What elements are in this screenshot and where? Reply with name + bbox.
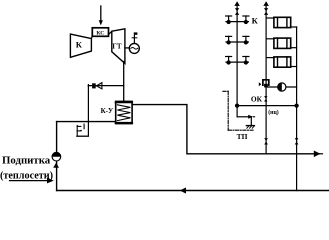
generator G: [129, 43, 139, 53]
radiator 1: [266, 17, 297, 27]
drain symbol: [246, 126, 254, 129]
supply water line from boiler to consumers: [132, 105, 319, 154]
return water line into boiler: [57, 121, 116, 123]
fuel supply arrow into combustion chamber: [99, 6, 103, 25]
taps riser valve: [235, 8, 239, 15]
hot water taps riser: [236, 3, 238, 106]
circulation pump: [278, 83, 286, 91]
temperature regulator valve: [259, 80, 269, 88]
heating supply riser: [265, 3, 267, 154]
svg-text:К-У: К-У: [101, 107, 114, 115]
link KC to turbine: [109, 31, 112, 34]
tap rung 2: [226, 36, 249, 44]
return flow arrowhead (left): [180, 187, 186, 193]
supply riser valve: [264, 8, 268, 15]
node: taps riser junction: [235, 103, 239, 107]
check valve OK: [264, 96, 267, 101]
supply riser top arrow: [263, 1, 269, 6]
node: service line to return riser: [294, 103, 298, 107]
valve on return riser at entry: [295, 138, 299, 144]
taps riser top arrow: [234, 1, 240, 6]
svg-text:(нц): (нц): [268, 109, 279, 116]
svg-text:ТП: ТП: [237, 132, 248, 141]
radiator 2: [266, 38, 297, 48]
tap rung 3: [226, 57, 249, 65]
bottom return main line: [57, 190, 329, 192]
svg-text:ОК: ОК: [251, 94, 263, 103]
instrument symbol under return line: [77, 124, 89, 136]
generator electrical output flag: [132, 32, 137, 43]
svg-text:КС: КС: [96, 30, 104, 36]
svg-text:ГТ: ГТ: [112, 42, 121, 50]
heat substation dash-dot boundary: [223, 91, 253, 130]
make-up riser pipe: [56, 122, 58, 191]
turbine exhaust pipe down to boiler: [123, 62, 125, 102]
heating return riser: [296, 27, 298, 191]
open water draw-off branch: [237, 106, 255, 126]
valve on supply riser at entry: [264, 138, 268, 144]
network make-up pump: [52, 152, 61, 161]
link compressor to KC: [90, 36, 93, 39]
bypass valve: [92, 83, 102, 89]
svg-text:(теплосети): (теплосети): [0, 170, 53, 181]
compressor K: [70, 34, 91, 57]
svg-text:Подпитка: Подпитка: [2, 155, 51, 167]
waste heat boiler K-U: [116, 101, 132, 123]
circulation pump line: [266, 86, 297, 88]
flow arrowhead up into pump: [53, 163, 59, 168]
svg-text:К: К: [76, 39, 83, 49]
tap rung 1: [226, 16, 249, 24]
exhaust bypass line: [88, 85, 123, 87]
supply line arrowhead: [314, 151, 321, 158]
combustion chamber KC: [92, 28, 108, 37]
hot water service line: [237, 105, 297, 107]
bypass drop pipe: [87, 86, 89, 136]
svg-text:К: К: [252, 16, 259, 26]
radiator 3: [266, 57, 297, 67]
generator shaft stub: [125, 47, 129, 49]
gas turbine GT: [112, 29, 125, 64]
make-up inlet arrow: [10, 178, 54, 184]
